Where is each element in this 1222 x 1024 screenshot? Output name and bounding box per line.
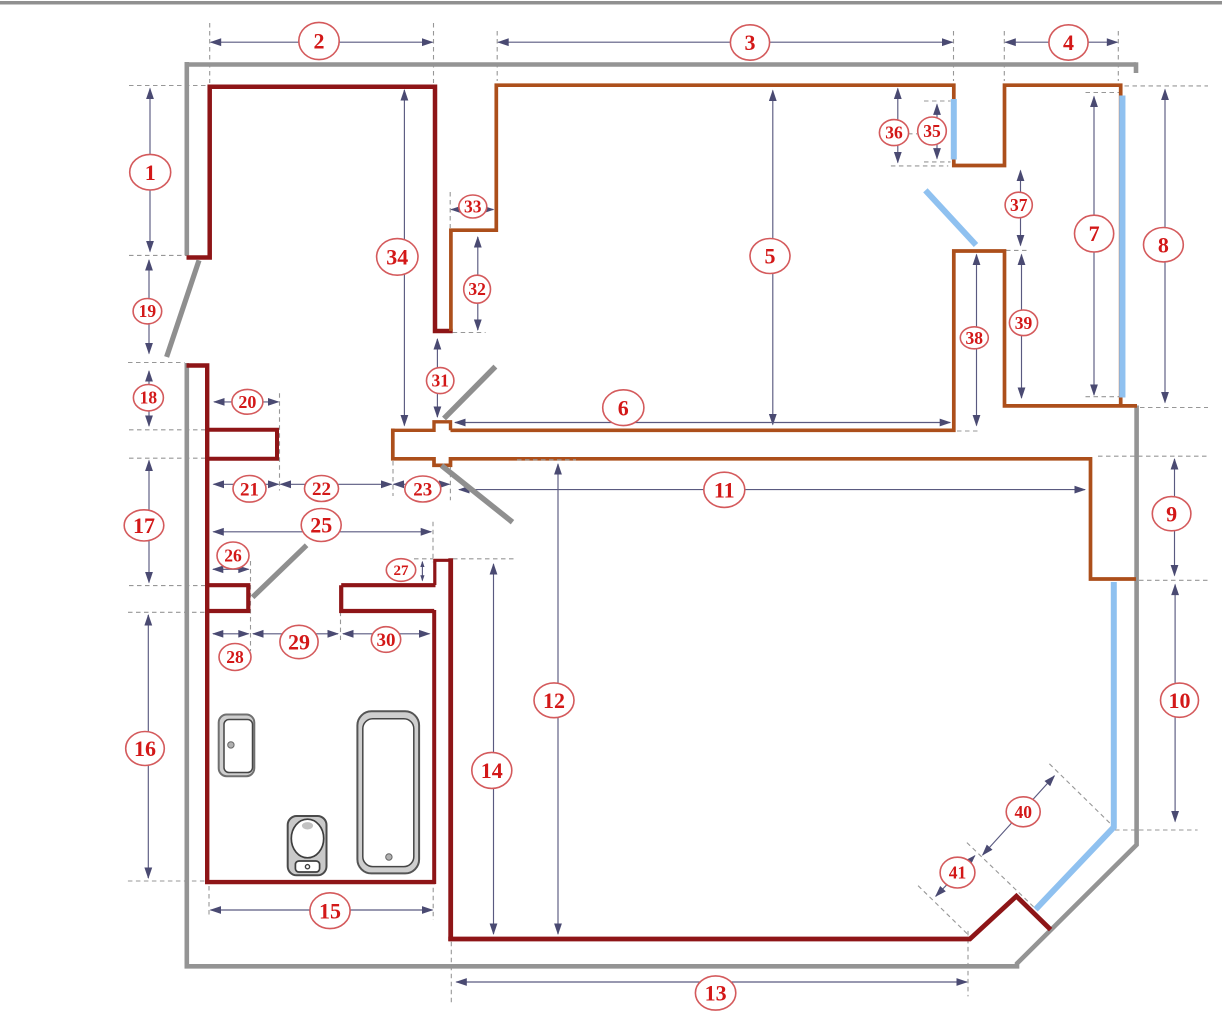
svg-text:4: 4 (1063, 30, 1074, 55)
svg-text:8: 8 (1158, 232, 1169, 257)
svg-text:11: 11 (714, 477, 735, 502)
svg-text:30: 30 (377, 630, 396, 651)
svg-text:38: 38 (966, 328, 984, 348)
svg-text:15: 15 (319, 898, 341, 923)
svg-text:10: 10 (1169, 688, 1191, 713)
svg-text:39: 39 (1015, 313, 1033, 333)
svg-text:2: 2 (314, 29, 325, 54)
svg-text:37: 37 (1010, 195, 1028, 215)
svg-text:9: 9 (1166, 501, 1177, 526)
svg-text:21: 21 (240, 479, 259, 500)
svg-text:31: 31 (431, 371, 449, 391)
svg-text:13: 13 (705, 981, 727, 1006)
svg-text:20: 20 (238, 392, 256, 412)
svg-text:34: 34 (386, 244, 408, 269)
svg-text:29: 29 (288, 630, 310, 655)
svg-text:7: 7 (1089, 221, 1100, 246)
svg-text:36: 36 (885, 123, 903, 143)
svg-text:1: 1 (145, 160, 156, 185)
svg-text:14: 14 (481, 758, 503, 783)
svg-text:6: 6 (618, 395, 629, 420)
svg-text:12: 12 (543, 688, 565, 713)
svg-text:40: 40 (1014, 802, 1032, 822)
svg-text:41: 41 (949, 863, 967, 883)
svg-text:25: 25 (310, 513, 332, 538)
svg-text:28: 28 (226, 647, 244, 667)
svg-text:27: 27 (394, 563, 410, 579)
svg-text:22: 22 (312, 479, 331, 500)
svg-text:19: 19 (139, 301, 157, 321)
svg-text:23: 23 (413, 480, 432, 501)
svg-text:33: 33 (464, 197, 482, 217)
svg-text:16: 16 (134, 736, 156, 761)
svg-text:18: 18 (140, 388, 158, 408)
svg-text:35: 35 (923, 121, 941, 141)
svg-text:32: 32 (468, 279, 486, 299)
svg-text:3: 3 (745, 30, 756, 55)
svg-text:5: 5 (765, 244, 776, 269)
svg-text:17: 17 (133, 513, 155, 538)
svg-text:26: 26 (224, 546, 242, 566)
